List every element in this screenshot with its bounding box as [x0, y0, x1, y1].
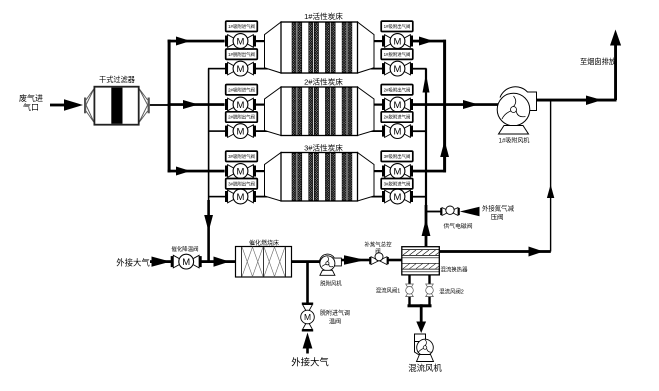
wire fan outlet to stack riser [537, 96, 617, 106]
wire row1 right bottom branch [412, 68, 427, 70]
svg-text:3#吸附出气阀: 3#吸附出气阀 [384, 153, 411, 160]
svg-text:1#脱附进气阀: 1#脱附进气阀 [384, 51, 411, 58]
wire row1 right to outlet bus [412, 37, 446, 46]
wire fan feed line [445, 100, 500, 109]
svg-text:混流风阀1: 混流风阀1 [376, 287, 401, 295]
svg-text:3#吸附进气阀: 3#吸附进气阀 [228, 153, 255, 160]
wire catalytic feed line left [150, 257, 174, 267]
wire control valve to heat exchanger [388, 259, 402, 262]
dry filter F1 干式过滤器 [84, 75, 150, 125]
svg-text:温阀: 温阀 [329, 318, 341, 326]
wire catalytic feed line right [200, 257, 236, 267]
svg-text:2#吸附出气阀: 2#吸附出气阀 [384, 86, 411, 93]
valve 1# desorption inlet (right bottom row1) [382, 61, 413, 76]
wire nitrogen inlet arrow [460, 207, 480, 216]
wire row3 bed left stubs [255, 170, 282, 198]
wire stack riser [614, 40, 617, 100]
wire arrow up on desorption bus (lower) [422, 219, 431, 237]
valve 3# desorption outlet (left bottom row3) [225, 189, 256, 204]
wire arrow up on vent drop line [547, 185, 554, 199]
bed 3#活性炭床 [265, 143, 375, 202]
svg-text:2#脱附出气阀: 2#脱附出气阀 [228, 114, 255, 121]
label box 2#吸附进气阀 [226, 85, 258, 95]
wire HX bottom branch right [428, 275, 430, 284]
fan 混流风机 [408, 334, 442, 373]
wire row3 left bottom branch [208, 196, 226, 198]
svg-text:催化燃烧床: 催化燃烧床 [249, 239, 279, 247]
valve 混流风阀1 [376, 284, 414, 297]
label box 3#吸附出气阀 [381, 151, 413, 161]
svg-text:M: M [304, 312, 311, 322]
svg-text:3#活性炭床: 3#活性炭床 [304, 143, 343, 153]
wire row2 bed right stubs [356, 104, 383, 133]
wire HX bottom branch right lower [428, 297, 430, 306]
svg-text:1#活性炭床: 1#活性炭床 [304, 11, 343, 21]
label box 2#脱附进气阀 [381, 112, 413, 122]
node 废气进气口 label [19, 93, 43, 112]
wire row1 bed left stubs [255, 40, 282, 70]
valve 1# adsorption outlet (right top row1) [382, 34, 413, 49]
node 外接氮气减压阀 label [482, 204, 515, 222]
valve 3# adsorption outlet (right top row3) [382, 164, 413, 179]
wire row2 right bottom branch [412, 130, 427, 132]
valve 催化降温阀 [171, 245, 202, 269]
wire row1 left bottom branch [208, 68, 226, 70]
wire row2 bed left stubs [255, 104, 282, 133]
wire left main inlet bus (vertical) [168, 40, 171, 173]
svg-text:脱附风机: 脱附风机 [320, 280, 342, 288]
svg-text:供气电磁阀: 供气电磁阀 [444, 222, 473, 230]
wire left desorption bus lower (to catalytic line) [207, 200, 210, 262]
heat exchanger 混流换热器 [402, 247, 468, 275]
valve 混流风阀2 [426, 284, 464, 297]
fan 脱附风机 [320, 254, 343, 287]
label box 3#脱附进气阀 [381, 179, 413, 189]
label box 3#脱附出气阀 [226, 179, 258, 189]
valve 2# adsorption inlet (left top row2) [225, 97, 256, 112]
wire HX bottom branch left [408, 275, 410, 284]
valve 1# desorption outlet (left bottom row1) [225, 61, 256, 76]
svg-text:脱附进气调: 脱附进气调 [320, 309, 350, 317]
wire filter to left bus [150, 104, 169, 106]
wire row3 right bottom branch [412, 196, 427, 198]
svg-text:1#吸附出气阀: 1#吸附出气阀 [384, 23, 411, 30]
svg-text:混流风阀2: 混流风阀2 [439, 288, 464, 296]
svg-text:废气进: 废气进 [19, 93, 43, 103]
wire row3 left feed [168, 167, 225, 176]
svg-text:至烟囱排放: 至烟囱排放 [580, 57, 616, 66]
wire merge bar [408, 304, 432, 307]
wire row1 bed right stubs [356, 40, 383, 70]
svg-text:气口: 气口 [23, 102, 39, 112]
wire arrow up on outlet bus [440, 141, 449, 158]
valve 3# desorption inlet (right bottom row3) [382, 189, 413, 204]
wire catalytic bed to desorption fan [292, 260, 321, 263]
svg-text:催化降温阀: 催化降温阀 [172, 245, 199, 253]
wire nitrogen supply line [426, 211, 441, 213]
wire row2 left bottom branch [208, 130, 226, 132]
label box 1#脱附出气阀 [226, 49, 258, 59]
svg-text:1#吸附进气阀: 1#吸附进气阀 [228, 23, 255, 30]
wire row2 left feed [168, 100, 225, 109]
label box 2#脱附出气阀 [226, 112, 258, 122]
wire row3 bed right stubs [356, 170, 383, 198]
svg-text:1#吸附风机: 1#吸附风机 [499, 137, 530, 145]
catalytic combustion bed 催化燃烧床 [236, 239, 292, 277]
wire tee down to fresh air valve [306, 262, 309, 303]
svg-text:3#脱附进气阀: 3#脱附进气阀 [384, 180, 411, 187]
bed 1#活性炭床 [265, 11, 375, 73]
svg-text:2#活性炭床: 2#活性炭床 [304, 77, 343, 87]
wire arrow down on left desorption bus [204, 215, 213, 232]
wire stack arrow 至烟囱排放 [610, 30, 621, 46]
label box 1#吸附进气阀 [226, 21, 258, 31]
svg-text:外接氮气减: 外接氮气减 [482, 204, 515, 213]
wire desorption supply bus (vertical) [425, 69, 427, 206]
valve 2# desorption outlet (left bottom row2) [225, 124, 256, 139]
svg-text:混流换热器: 混流换热器 [441, 266, 469, 274]
valve 1# adsorption inlet (left top row1) [225, 34, 256, 49]
wire outlet bus (vertical) [443, 40, 446, 173]
wire HX bottom branch left lower [408, 297, 410, 306]
valve 2# desorption inlet (right bottom row2) [382, 124, 413, 139]
label box 1#脱附进气阀 [381, 49, 413, 59]
wire heat exchanger outlet to vent [439, 247, 551, 257]
bed 2#活性炭床 [265, 77, 375, 136]
label box 2#吸附出气阀 [381, 85, 413, 95]
svg-text:补蒸气总控: 补蒸气总控 [365, 241, 393, 249]
valve 供气电磁阀 [440, 206, 472, 230]
svg-text:1#脱附出气阀: 1#脱附出气阀 [228, 51, 255, 58]
label box 3#吸附进气阀 [226, 151, 258, 161]
svg-text:2#脱附进气阀: 2#脱附进气阀 [384, 114, 411, 121]
valve 补蒸气总控阀 [365, 241, 393, 265]
svg-text:外接大气: 外接大气 [291, 357, 329, 368]
wire row2 right to outlet bus [412, 103, 446, 106]
svg-text:压阀: 压阀 [491, 212, 504, 221]
fan 1#吸附风机 [497, 87, 536, 145]
valve 2# adsorption outlet (right top row2) [382, 97, 413, 112]
wire stem to mixing fan with down arrow [416, 304, 426, 333]
svg-text:外接大气: 外接大气 [116, 258, 150, 268]
wire row3 right to outlet bus [412, 170, 446, 173]
valve 脱附进气调温阀 (vertical) [301, 303, 350, 332]
wire waste-gas inlet [50, 99, 83, 110]
svg-text:混流风机: 混流风机 [408, 363, 442, 373]
wire row1 left feed [168, 37, 225, 46]
wire fresh air inlet arrow (up) [303, 333, 313, 354]
svg-text:3#脱附出气阀: 3#脱附出气阀 [228, 180, 255, 187]
wire arrow up on desorption bus (upper) [423, 74, 430, 93]
svg-text:2#吸附进气阀: 2#吸附进气阀 [228, 86, 255, 93]
svg-text:干式过滤器: 干式过滤器 [99, 75, 135, 84]
wire left desorption bus (vertical thin) [208, 69, 210, 204]
label box 1#吸附出气阀 [381, 21, 413, 31]
wire desorption fan outlet [342, 255, 370, 264]
wire dilution vent drop line [550, 100, 551, 252]
valve 3# adsorption inlet (left top row3) [225, 164, 256, 179]
